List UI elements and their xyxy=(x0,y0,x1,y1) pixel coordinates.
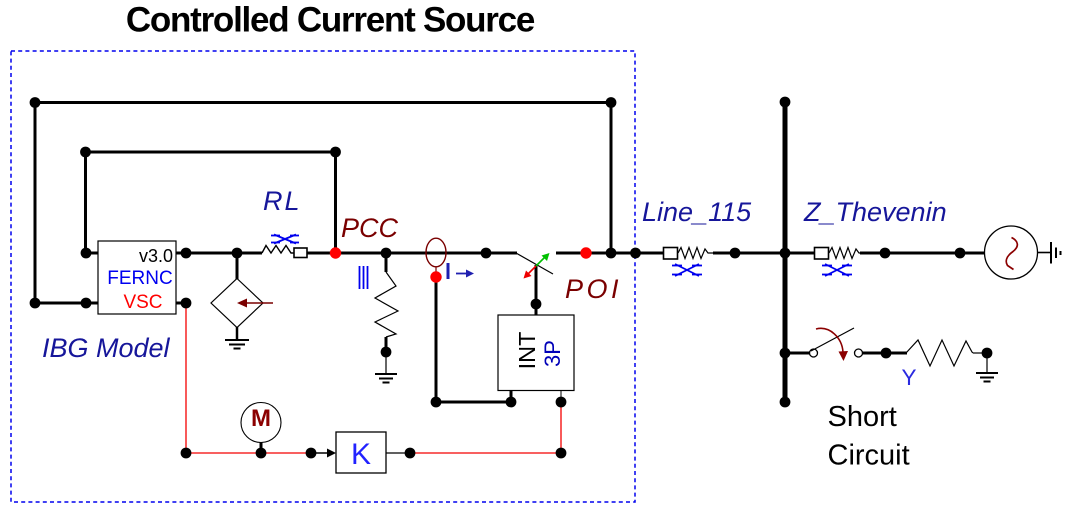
source V1 circle xyxy=(985,226,1038,279)
wire lower-left horizontal xyxy=(35,302,98,305)
node bus before breaker xyxy=(481,248,492,259)
Z_Thevenin impedance element xyxy=(815,248,863,260)
node POI (red) xyxy=(580,247,591,258)
svg-text:M: M xyxy=(251,405,271,432)
wire diamond bottom stem xyxy=(236,327,239,339)
svg-text:3P: 3P xyxy=(540,340,565,367)
node CT red xyxy=(430,271,441,282)
node before source xyxy=(955,248,966,259)
node second bus right xyxy=(330,147,341,158)
wire second bus pin to box xyxy=(86,252,99,255)
wire INT bottom-left pin xyxy=(510,390,513,402)
svg-text:POI: POI xyxy=(565,274,622,304)
label Short Circuit xyxy=(828,401,910,472)
RL blue impedance mark xyxy=(271,235,299,244)
wire PCC drop xyxy=(334,152,337,253)
wire red FERNC to bottom xyxy=(185,303,187,453)
node after K xyxy=(405,448,416,459)
node FERNC pin top-left xyxy=(81,248,92,259)
CT ellipse xyxy=(426,238,446,272)
wire short-circuit stub xyxy=(785,352,810,355)
svg-text:VSC: VSC xyxy=(123,292,162,313)
svg-text:v3.0: v3.0 xyxy=(139,246,173,266)
node vertical bus top xyxy=(780,97,791,108)
node INT top xyxy=(531,299,542,310)
svg-text:Z_Thevenin: Z_Thevenin xyxy=(803,197,947,227)
wire INT bottom-right pin xyxy=(560,390,562,402)
node red bottom-left xyxy=(181,448,192,459)
node main bus / vertical bus xyxy=(780,248,791,259)
wire right vertical bus xyxy=(783,102,788,402)
ground below R2 xyxy=(375,352,397,383)
label I arrow xyxy=(447,263,475,279)
wire second bus xyxy=(85,151,336,154)
node M bottom xyxy=(256,448,267,459)
resistor R2 vertical xyxy=(375,272,398,337)
meter M xyxy=(241,403,281,443)
wire top-right drop xyxy=(610,103,613,254)
svg-text:Y: Y xyxy=(902,365,917,390)
node INT bottom-right xyxy=(556,397,567,408)
Z_Thevenin blue mark xyxy=(822,264,852,276)
svg-text:FERNC: FERNC xyxy=(107,268,172,289)
wire main bus breaker to Line_115 xyxy=(556,252,664,255)
wire CT down xyxy=(435,281,438,402)
node before K arrow xyxy=(306,448,317,459)
subsystem boundary dashed box xyxy=(11,51,635,502)
svg-text:PCC: PCC xyxy=(341,213,399,243)
wire main bus Line_115 to Z_Thevenin xyxy=(713,252,815,255)
node top-right drop junction xyxy=(606,248,617,259)
short-circuit red arc arrow xyxy=(816,328,848,361)
svg-text:INT: INT xyxy=(514,332,540,370)
node red INT corner xyxy=(556,448,567,459)
node CT bottom corner xyxy=(431,397,442,408)
node INT bottom-left xyxy=(506,397,517,408)
wire FERNC right bottom pin xyxy=(176,302,186,305)
wire main bus RL to breaker xyxy=(307,252,517,255)
resistor RL xyxy=(262,246,307,258)
wire second bus left drop xyxy=(84,152,87,253)
svg-text:IBG Model: IBG Model xyxy=(42,333,171,363)
resistor fault Y xyxy=(906,340,987,366)
wire resistor R2 stem bottom xyxy=(385,337,388,352)
node FERNC pin top-right xyxy=(181,248,192,259)
node FERNC pin bottom-right xyxy=(181,298,192,309)
node top-left xyxy=(30,97,41,108)
Line_115 blue mark xyxy=(672,264,702,276)
short-circuit switch blade xyxy=(811,328,854,351)
wire top bus xyxy=(35,101,611,104)
gain block K xyxy=(336,432,386,473)
wire red bottom to K arrow xyxy=(186,452,311,454)
node diamond top xyxy=(232,248,243,259)
node R2 top xyxy=(381,248,392,259)
short-circuit switch open circle right xyxy=(855,349,863,357)
wire short-circuit switch to resistor xyxy=(863,352,908,355)
node vertical bus bottom xyxy=(780,397,791,408)
node fault resistor right xyxy=(982,348,993,359)
wire red INT vertical xyxy=(560,402,562,453)
short-circuit switch open circle left xyxy=(810,349,818,357)
node PCC (red) xyxy=(330,247,341,258)
FERNC box U1 xyxy=(98,241,176,314)
svg-text:K: K xyxy=(351,438,371,471)
svg-text:Line_115: Line_115 xyxy=(642,197,752,227)
breaker green arrow xyxy=(536,253,550,266)
wire resistor R2 stem top xyxy=(385,253,388,272)
ground right of source xyxy=(1051,242,1061,264)
node R2 bottom xyxy=(381,347,392,358)
wire M stem xyxy=(260,442,263,453)
node Line_115 right xyxy=(730,248,741,259)
wire K output xyxy=(386,452,410,454)
wire CT bottom horizontal xyxy=(436,401,511,404)
node FERNC pin bottom-left xyxy=(81,298,92,309)
node vertical bus SC xyxy=(780,348,791,359)
wire main bus left of RL xyxy=(176,252,262,255)
svg-text:Short: Short xyxy=(828,401,897,433)
INT 3P box xyxy=(498,315,574,391)
wire breaker to INT xyxy=(535,265,538,315)
wire left vertical xyxy=(34,103,37,304)
node at boundary xyxy=(630,248,641,259)
node left corner xyxy=(30,298,41,309)
R2 blue phase marks xyxy=(360,266,368,289)
svg-text:Controlled Current Source: Controlled Current Source xyxy=(126,1,535,40)
svg-text:RL: RL xyxy=(263,186,302,216)
wire diamond top stem xyxy=(236,253,239,279)
ground below diamond xyxy=(225,340,249,349)
breaker BRK blade xyxy=(516,253,553,274)
wire FERNC right top pin xyxy=(176,252,186,255)
wire source ground stem xyxy=(1038,252,1052,254)
wire main bus Z_Thevenin to source xyxy=(860,252,985,255)
wire arrow into K xyxy=(311,449,336,458)
node Z_Thevenin right xyxy=(880,248,891,259)
node SC switch right xyxy=(881,348,892,359)
ground below fault resistor xyxy=(976,353,998,382)
wire red K to INT xyxy=(410,452,561,454)
current source diamond xyxy=(211,279,273,328)
node second bus left xyxy=(80,147,91,158)
Line_115 impedance element xyxy=(664,248,714,260)
svg-text:Circuit: Circuit xyxy=(828,440,910,472)
breaker red arrow xyxy=(524,266,537,279)
node top-right xyxy=(606,97,617,108)
